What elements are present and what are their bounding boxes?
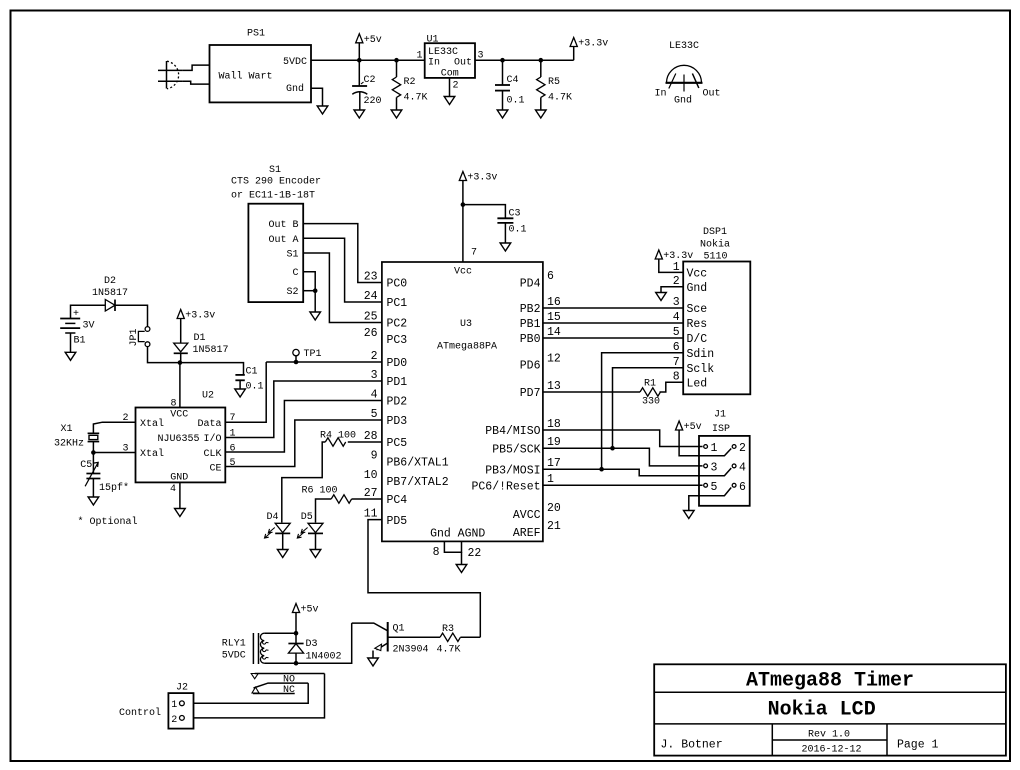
wire U3 PB0 to DSP1 D/C (543, 337, 683, 339)
svg-text:C1: C1 (246, 367, 258, 378)
svg-text:10: 10 (364, 469, 378, 482)
connector J1 ISP (699, 410, 750, 506)
svg-text:+3.3v: +3.3v (467, 173, 497, 184)
svg-text:5: 5 (230, 458, 236, 469)
junction Sdin on MOSI net (599, 467, 604, 472)
svg-text:PB2: PB2 (520, 303, 541, 316)
svg-text:4: 4 (739, 461, 746, 474)
svg-text:Out A: Out A (268, 235, 298, 246)
ground D4 (277, 550, 288, 558)
wire S1 OutA to U3 PC1 (303, 238, 382, 302)
svg-text:JP1: JP1 (129, 328, 140, 346)
svg-text:PD4: PD4 (520, 278, 541, 291)
svg-text:2: 2 (739, 442, 746, 455)
U3 right pin labels and numbers (471, 270, 560, 540)
svg-text:S1: S1 (286, 250, 298, 261)
RTC U2 NJU6355 (122, 391, 235, 496)
capacitor C3 0.1 (497, 209, 526, 244)
wire relay common to J2 pin 1 (194, 683, 308, 703)
junction D1 / U2 VCC (178, 360, 183, 365)
svg-text:20: 20 (547, 502, 561, 515)
ground R2 (391, 110, 402, 118)
svg-text:D1: D1 (194, 333, 206, 344)
svg-text:32KHz: 32KHz (54, 439, 84, 450)
wire R4 to D4 (282, 442, 326, 523)
svg-text:C5: C5 (80, 460, 92, 471)
wire U3 PB4/MISO to J1 pin 1 (543, 430, 703, 447)
svg-text:PD6: PD6 (520, 360, 541, 373)
wall plug (158, 61, 183, 89)
wire S1 C (303, 272, 315, 291)
svg-text:25: 25 (364, 310, 378, 323)
wire DSP1 Gnd pin 2 (661, 287, 683, 293)
svg-text:PC6/!Reset: PC6/!Reset (471, 481, 540, 494)
wire U3 PB3/MOSI to J1 pin 4 (543, 468, 731, 476)
ground C2 (354, 110, 365, 118)
capacitor C1 0.1 (235, 367, 263, 393)
svg-text:18: 18 (547, 418, 561, 431)
svg-text:4.7K: 4.7K (437, 645, 461, 656)
wire Q1 collector (352, 623, 388, 631)
svg-text:D5: D5 (301, 512, 313, 523)
crystal X1 32KHz (54, 422, 136, 452)
svg-text:U2: U2 (202, 391, 214, 402)
ground DSP1 (656, 293, 667, 301)
svg-text:PD1: PD1 (387, 376, 408, 389)
svg-text:1: 1 (171, 700, 177, 711)
wire U3 PC6/!Reset to J1 pin 5 (543, 484, 703, 486)
svg-text:4.7K: 4.7K (404, 93, 428, 104)
svg-text:0.1: 0.1 (509, 225, 527, 236)
wire PD0 net right segment (266, 361, 382, 363)
ground PS1 (317, 106, 328, 114)
junction +5v rail / C2 (357, 58, 362, 63)
svg-text:CE: CE (209, 464, 221, 475)
svg-text:PD2: PD2 (387, 396, 408, 409)
svg-text:8: 8 (433, 546, 440, 559)
svg-text:PB3/MOSI: PB3/MOSI (485, 464, 540, 477)
svg-text:27: 27 (364, 487, 378, 500)
wire J1 pin 6 to ground (689, 488, 731, 511)
ground D5 (310, 550, 321, 558)
ground R5 (536, 110, 547, 118)
LCD DSP1 Nokia 5110 (683, 227, 750, 394)
relay contact NC (252, 685, 295, 696)
svg-text:TP1: TP1 (304, 349, 322, 360)
svg-text:Gnd: Gnd (674, 95, 692, 107)
svg-text:Q1: Q1 (393, 624, 405, 635)
wire +3.3v to DSP1 pin 1 (659, 259, 683, 272)
wire U1 Com to ground (449, 78, 451, 97)
ground U2 (175, 509, 186, 517)
svg-text:+5v: +5v (301, 605, 319, 616)
resistor R3 4.7K (388, 624, 480, 656)
svg-text:S2: S2 (286, 287, 298, 298)
svg-text:22: 22 (468, 547, 482, 560)
svg-text:B1: B1 (74, 336, 86, 347)
svg-text:28: 28 (364, 430, 378, 443)
rotary encoder S1 (231, 165, 321, 302)
svg-text:1: 1 (711, 442, 718, 455)
svg-text:PD0: PD0 (387, 357, 408, 370)
svg-text:Xtal: Xtal (140, 418, 164, 430)
svg-text:U3: U3 (460, 319, 472, 330)
LED D5 (297, 512, 323, 550)
svg-text:NJU6355: NJU6355 (158, 434, 200, 445)
svg-text:Rev 1.0: Rev 1.0 (808, 730, 850, 741)
svg-text:D2: D2 (104, 276, 116, 287)
svg-text:In: In (428, 58, 440, 69)
ground C1 (235, 389, 246, 397)
svg-text:C4: C4 (507, 75, 519, 86)
wire S1 OutB to U3 PC0 (303, 224, 382, 283)
svg-text:PB7/XTAL2: PB7/XTAL2 (387, 476, 449, 489)
svg-text:220: 220 (364, 96, 382, 107)
wire U3 PB1 to DSP1 Res (543, 322, 683, 324)
svg-text:19: 19 (547, 436, 561, 449)
svg-text:4: 4 (371, 388, 378, 401)
svg-text:AVCC: AVCC (513, 509, 541, 522)
wire U2 CE to U3 PD3 (225, 420, 382, 467)
svg-text:PD3: PD3 (387, 415, 408, 428)
wire U3 PB2 to DSP1 Sce (543, 307, 683, 309)
svg-text:Out: Out (703, 89, 721, 100)
svg-text:ISP: ISP (712, 424, 730, 435)
transistor Q1 2N3904 (352, 622, 429, 658)
wire U3 PC4 to R6 (352, 498, 382, 500)
ground U3 (456, 565, 467, 573)
svg-text:R4 100: R4 100 (320, 431, 356, 442)
svg-text:NC: NC (283, 685, 295, 696)
power +5v at relay (292, 604, 318, 616)
svg-text:Gnd AGND: Gnd AGND (430, 528, 485, 541)
wire DSP1 Sclk to SCK net (613, 368, 684, 449)
junction relay coil top / D3 (294, 631, 299, 636)
svg-text:* Optional: * Optional (78, 516, 138, 528)
svg-text:5: 5 (711, 481, 718, 494)
svg-text:X1: X1 (61, 424, 73, 435)
svg-text:0.1: 0.1 (246, 382, 264, 393)
svg-text:Led: Led (687, 377, 708, 390)
wire S1 S1 to U3 PC2 (303, 253, 382, 323)
wire DSP1 Sdin to MOSI net (602, 353, 684, 470)
svg-text:S1: S1 (269, 165, 281, 176)
wire U3 PB5/SCK to J1 pin 3 (543, 448, 703, 466)
wire PS1 Gnd (311, 88, 323, 106)
wire S1 S2 (303, 290, 315, 292)
trimmer capacitor C5 15pf (80, 453, 129, 498)
wire +5v to J1 pin 2 (679, 430, 731, 456)
svg-text:C: C (292, 268, 298, 279)
wire U2 CLK to U3 PD2 (225, 401, 382, 453)
junction Sclk on SCK net (610, 446, 615, 451)
svg-text:RLY1: RLY1 (222, 639, 246, 650)
svg-text:1N5817: 1N5817 (193, 345, 229, 356)
resistor R4 100 (320, 431, 356, 447)
svg-text:26: 26 (364, 327, 378, 340)
svg-text:Out: Out (454, 58, 472, 69)
junction TP1 on PD0 net (294, 360, 299, 365)
svg-text:PC2: PC2 (387, 318, 408, 331)
relay moving contact blade (254, 683, 309, 688)
svg-text:1: 1 (416, 51, 422, 62)
svg-text:PS1: PS1 (247, 29, 265, 40)
regulator U1 LE33C (416, 35, 483, 92)
svg-text:23: 23 (364, 270, 378, 283)
capacitor C4 0.1 (495, 60, 525, 110)
DSP1 pin labels and numbers (673, 261, 714, 391)
svg-text:+3.3v: +3.3v (663, 251, 693, 262)
svg-text:3V: 3V (83, 321, 95, 332)
title block (654, 664, 1006, 755)
connector J2 Control (119, 683, 194, 729)
power symbol +3.3v (top rail) (570, 38, 608, 50)
wire D2 to JP1 (115, 305, 148, 326)
svg-text:5VDC: 5VDC (222, 651, 246, 662)
wire U2 GND pin 4 (179, 482, 181, 508)
svg-text:5VDC: 5VDC (283, 57, 307, 68)
J1 pin circles and numbers (704, 442, 746, 494)
svg-text:6: 6 (547, 270, 554, 283)
diode D3 1N4002 (288, 633, 341, 663)
svg-text:+3.3v: +3.3v (578, 39, 608, 50)
resistor R6 100 (302, 486, 352, 504)
capacitor C2 220 (352, 60, 381, 110)
ground C3 (500, 243, 511, 251)
svg-text:D/C: D/C (687, 333, 708, 346)
svg-text:Wall Wart: Wall Wart (219, 71, 273, 83)
svg-text:Vcc: Vcc (454, 267, 472, 278)
wire U2 VCC pin 8 (179, 363, 181, 408)
svg-text:C2: C2 (364, 75, 376, 86)
U3 Gnd AGND bottom pins (430, 528, 485, 565)
svg-text:1N4002: 1N4002 (306, 652, 342, 663)
svg-text:2: 2 (453, 81, 459, 92)
svg-text:1: 1 (547, 473, 554, 486)
wire U2 I/O to U3 PD1 (225, 381, 382, 438)
svg-text:Page 1: Page 1 (897, 739, 939, 752)
wire U3 PD5 to R3 (368, 520, 480, 638)
power symbol +5v (356, 34, 382, 46)
svg-text:PC0: PC0 (387, 278, 408, 291)
svg-text:+3.3v: +3.3v (185, 311, 215, 322)
svg-text:1N5817: 1N5817 (92, 288, 128, 299)
junction R5 (539, 58, 544, 63)
svg-text:3: 3 (711, 461, 718, 474)
wire Q1 collector to relay (296, 623, 352, 663)
svg-text:Res: Res (687, 318, 708, 331)
relay contact NO (251, 674, 324, 686)
svg-text:PB4/MISO: PB4/MISO (485, 425, 540, 438)
svg-text:+5v: +5v (364, 35, 382, 46)
svg-text:11: 11 (364, 507, 378, 520)
wire plug to PS1 (183, 65, 210, 70)
ground B1 (65, 352, 76, 360)
jumper JP1 (129, 327, 150, 347)
svg-text:4.7K: 4.7K (548, 93, 572, 104)
resistor R1 330 (543, 379, 683, 408)
svg-text:PC5: PC5 (387, 437, 408, 450)
diode D1 1N5817 (174, 333, 229, 363)
svg-text:Sdin: Sdin (687, 348, 715, 361)
svg-text:GND: GND (170, 473, 188, 484)
svg-text:16: 16 (547, 296, 561, 309)
svg-text:Nokia: Nokia (700, 239, 730, 251)
svg-text:2: 2 (371, 350, 378, 363)
svg-text:VCC: VCC (170, 410, 188, 421)
svg-text:9: 9 (371, 449, 378, 462)
ground U1 Com (444, 97, 455, 105)
svg-text:Gnd: Gnd (286, 83, 304, 95)
svg-text:PB6/XTAL1: PB6/XTAL1 (387, 457, 449, 470)
resistor R2 4.7K (392, 60, 427, 110)
junction relay coil bottom / D3 (294, 661, 299, 666)
svg-text:2: 2 (171, 715, 177, 726)
svg-text:Control: Control (119, 707, 161, 719)
svg-text:LE33C: LE33C (669, 41, 699, 52)
wire U2 Data to U3 PD0 (225, 362, 266, 422)
svg-text:+5v: +5v (684, 422, 702, 433)
svg-text:R6 100: R6 100 (302, 486, 338, 497)
svg-text:17: 17 (547, 457, 561, 470)
junction X1 / C5 (91, 450, 96, 455)
svg-text:R5: R5 (548, 77, 560, 88)
wire JP1 to power net / C1 (148, 347, 244, 375)
junction +5v rail / R2 (394, 58, 399, 63)
svg-text:R2: R2 (404, 77, 416, 88)
junction C3 branch (461, 202, 466, 207)
ground J1 (684, 511, 695, 519)
resistor R5 4.7K (537, 60, 572, 110)
wire R6 to D5 (316, 499, 332, 523)
svg-text:I/O: I/O (203, 433, 221, 445)
junction S2/C (313, 288, 318, 293)
wire PS1 5VDC to U1 In (+5v rail) (311, 59, 425, 61)
svg-text:U1: U1 (427, 35, 439, 46)
svg-text:24: 24 (364, 290, 378, 303)
svg-text:AREF: AREF (513, 527, 541, 540)
svg-text:In: In (654, 89, 666, 100)
junction C4 (500, 58, 505, 63)
LE33C package drawing (TO-92) (654, 41, 720, 107)
svg-text:15pf*: 15pf* (99, 482, 129, 494)
svg-text:Sclk: Sclk (687, 363, 715, 376)
svg-text:5: 5 (371, 408, 378, 421)
wire +3.3v to U3 Vcc pin 7 (462, 181, 464, 263)
svg-text:Xtal: Xtal (140, 448, 164, 460)
power +3.3v at U3 Vcc (459, 172, 497, 184)
ground S2 (310, 312, 321, 320)
svg-text:12: 12 (547, 352, 561, 365)
ground C4 (497, 110, 508, 118)
LED D4 (265, 512, 291, 550)
svg-text:C3: C3 (509, 209, 521, 220)
wire U1 Out to +3.3v rail (475, 59, 574, 61)
relay RLY1 5VDC coil (222, 633, 296, 664)
diode D2 1N5817 (92, 276, 128, 311)
svg-text:Sce: Sce (687, 303, 708, 316)
MCU U3 ATmega88PA (382, 248, 543, 542)
svg-text:7: 7 (471, 248, 477, 259)
svg-text:or EC11-1B-18T: or EC11-1B-18T (231, 191, 315, 202)
svg-text:DSP1: DSP1 (703, 227, 727, 238)
svg-text:0.1: 0.1 (507, 96, 525, 107)
svg-text:Out B: Out B (268, 220, 298, 231)
wire U3 PC5 to R4 (348, 441, 382, 443)
power +3.3v at DSP1 Vcc (655, 250, 693, 262)
ground C5 (88, 497, 99, 505)
ground Q1 emitter (368, 658, 379, 666)
svg-text:ATmega88PA: ATmega88PA (437, 342, 497, 353)
svg-text:PB1: PB1 (520, 318, 541, 331)
svg-text:4: 4 (170, 484, 176, 495)
svg-text:2016-12-12: 2016-12-12 (801, 745, 861, 756)
svg-text:J1: J1 (714, 410, 726, 421)
svg-text:PB5/SCK: PB5/SCK (492, 443, 540, 456)
svg-text:CLK: CLK (203, 449, 221, 460)
svg-text:LE33C: LE33C (428, 47, 458, 58)
U3 left pin labels and numbers (364, 270, 449, 528)
svg-text:PC1: PC1 (387, 297, 408, 310)
svg-text:13: 13 (547, 380, 561, 393)
svg-text:Com: Com (441, 69, 459, 80)
svg-text:R1: R1 (644, 379, 656, 390)
power supply PS1 (210, 29, 312, 103)
svg-text:J2: J2 (176, 683, 188, 694)
svg-text:J. Botner: J. Botner (661, 739, 723, 752)
svg-text:PD7: PD7 (520, 387, 541, 400)
svg-text:ATmega88 Timer: ATmega88 Timer (746, 670, 914, 693)
svg-text:PD5: PD5 (387, 515, 408, 528)
svg-text:3: 3 (371, 369, 378, 382)
svg-text:Gnd: Gnd (687, 282, 708, 295)
battery B1 3V (60, 305, 105, 352)
svg-text:Vcc: Vcc (687, 268, 708, 281)
svg-text:PC3: PC3 (387, 334, 408, 347)
wire to C3 (463, 205, 506, 219)
svg-text:15: 15 (547, 311, 561, 324)
svg-text:CTS 290 Encoder: CTS 290 Encoder (231, 176, 321, 188)
svg-text:Data: Data (197, 419, 221, 430)
wire relay NO to J2 pin 2 (194, 674, 325, 718)
power symbol +3.3v (D1) (177, 310, 215, 322)
power +5v at J1 (676, 421, 702, 433)
svg-text:14: 14 (547, 326, 561, 339)
svg-text:330: 330 (642, 397, 660, 408)
svg-text:PB0: PB0 (520, 333, 541, 346)
test point TP1 (293, 349, 322, 362)
svg-text:6: 6 (739, 481, 746, 494)
svg-text:PC4: PC4 (387, 494, 408, 507)
svg-text:2N3904: 2N3904 (393, 645, 429, 656)
svg-text:8: 8 (170, 399, 176, 410)
svg-text:D3: D3 (306, 639, 318, 650)
svg-text:D4: D4 (267, 512, 279, 523)
svg-text:21: 21 (547, 520, 561, 533)
svg-text:Nokia LCD: Nokia LCD (768, 699, 876, 722)
wire S2 to ground (314, 291, 316, 312)
